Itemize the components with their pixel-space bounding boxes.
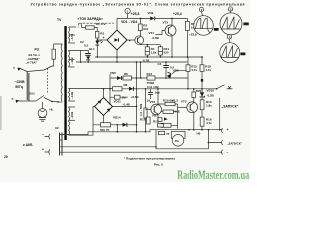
junction dot C4 top — [165, 61, 167, 63]
svg-text:Н6: Н6 — [197, 132, 201, 136]
transistor VT3 emitter — [168, 33, 172, 58]
lamp HL — [38, 109, 47, 118]
svg-text:VT3: VT3 — [163, 21, 169, 25]
oscillogram 3 axis — [221, 28, 241, 30]
junction dot bus129 x202 — [201, 129, 203, 131]
capacitor C13 body — [101, 123, 111, 127]
svg-text:FU: FU — [35, 48, 40, 52]
junction dot start — [208, 142, 210, 144]
bottom bus left y137.4 — [62, 130, 156, 135]
small box row c — [161, 123, 171, 127]
svg-text:R20: R20 — [196, 89, 202, 93]
svg-text:а: а — [13, 66, 15, 70]
junction dot y62 bridge — [116, 61, 118, 63]
terminal arrow mains upper — [18, 68, 22, 71]
bridge 2 diamond — [95, 98, 113, 116]
wire R16b bottom — [201, 126, 203, 130]
junction dot VT5 collector bus — [193, 88, 195, 90]
wire tap y43 — [69, 42, 76, 44]
resistor R10 body — [165, 102, 175, 105]
resistor R16 vertical body — [147, 117, 151, 124]
lamp HL stem — [42, 102, 44, 109]
junction dot rail x136 — [136, 124, 138, 126]
bridge VD1-VD4 internal diode — [114, 38, 118, 42]
wire between R19 R16 — [201, 110, 203, 117]
svg-text:−: − — [227, 151, 229, 155]
svg-text:~220В: ~220В — [15, 80, 26, 84]
transistor VT2 collector — [154, 89, 158, 108]
wire mains lower — [19, 100, 36, 102]
resistor R4 divider — [145, 51, 149, 53]
oscillogram 2 circle — [194, 16, 214, 36]
svg-text:4,7к: 4,7к — [191, 68, 197, 72]
diode VD below C2 — [86, 56, 90, 59]
svg-text:R17: R17 — [153, 120, 159, 124]
emitter rail y44.7 — [141, 45, 161, 47]
junction dot primary bottom 2 — [57, 101, 59, 103]
wire tap y50 to C2 loop — [69, 49, 81, 51]
shunt body — [144, 108, 147, 118]
plug X1 pin 1 — [26, 72, 28, 101]
dash-dot link vertical — [78, 23, 80, 27]
resistor R4 body — [145, 47, 149, 55]
junction dot y137 x145 — [145, 131, 147, 133]
junction dot y78 x136 — [136, 77, 138, 79]
wire R12 row — [161, 111, 178, 113]
svg-text:0,5: 0,5 — [84, 44, 89, 48]
diode VD12 on rail — [123, 123, 127, 127]
small box above meter bus — [158, 124, 164, 127]
junction dot rail x117 — [117, 124, 119, 126]
svg-text:* Подключают при регулирован: * Подключают при регулировании — [124, 157, 175, 161]
oscillogram 4 time label — [240, 53, 245, 56]
diode VD7 bar — [132, 87, 134, 91]
resistor R1 wiper arrow — [81, 23, 83, 27]
svg-text:VD9: VD9 — [148, 11, 154, 15]
LED HL1 — [95, 41, 99, 45]
svg-text:50Гц: 50Гц — [15, 85, 24, 89]
junction dot y137 x117 — [117, 131, 119, 133]
LED HL1 arrows — [100, 40, 103, 44]
junction dot rail R4 — [147, 44, 149, 46]
bus y57 — [95, 56, 203, 58]
switch SA1.1 — [44, 59, 54, 70]
svg-text:4,7к: 4,7к — [205, 68, 211, 72]
svg-text:-0,5В: -0,5В — [207, 94, 215, 98]
resistor R21 body — [158, 47, 162, 55]
junction dot VT2 collector bus — [157, 88, 159, 90]
terminal arrow out plus — [222, 128, 223, 133]
junction dot y137 x136 — [136, 131, 138, 133]
connector X2 rungs — [60, 135, 63, 153]
bottom bus lower y151.5 — [62, 151, 222, 153]
wire mains upper — [21, 69, 27, 72]
resistor R16b body — [200, 117, 204, 126]
svg-text:1,8к: 1,8к — [206, 104, 212, 108]
junction dot x140 y62 — [140, 61, 142, 63]
junction dot LED column — [97, 39, 99, 41]
column x202 wire — [201, 57, 203, 100]
shunt wire x145.5 — [145, 89, 147, 132]
resistor R1 body — [86, 26, 95, 29]
wire x140 y62-78 — [140, 62, 142, 78]
svg-text:R16: R16 — [140, 118, 146, 122]
svg-text:VD5: VD5 — [110, 71, 116, 75]
junction dot bus89 x202 — [201, 88, 203, 90]
resistor R20 lead — [193, 89, 195, 92]
oscillogram 4 marker — [227, 35, 231, 39]
resistor R3 body — [138, 24, 142, 30]
junction dot bus129 x208 — [208, 129, 210, 131]
svg-text:„ЗАПУСК": „ЗАПУСК" — [222, 105, 239, 109]
diode small row — [164, 117, 168, 120]
oscillogram 4 stem — [229, 39, 231, 43]
svg-text:Устройство зарядно-пусковое: Устройство зарядно-пусковое „Электроника… — [31, 3, 245, 7]
junction dot bus89 x188 — [187, 88, 189, 90]
junction dot x202 y57 — [201, 56, 203, 58]
resistor R2 body — [96, 31, 99, 38]
wire bridge1 bottom to buses — [116, 50, 118, 62]
svg-text:+25,4: +25,4 — [173, 12, 182, 16]
junction dot x136 y106 — [136, 106, 138, 108]
wire tap y135 to rail — [69, 125, 94, 135]
transistor VT5 emitter — [190, 109, 194, 129]
svg-text:+: + — [227, 128, 229, 132]
svg-text:-0,6В: -0,6В — [152, 36, 160, 40]
junction dot middle bus — [155, 146, 157, 148]
resistor R13 body — [147, 76, 155, 80]
resistor R8 on bus89 — [113, 87, 123, 91]
row y97 cap — [115, 95, 121, 99]
junction dot y57 VT3 — [171, 56, 173, 58]
svg-text:VD1 - VD4: VD1 - VD4 — [121, 20, 137, 24]
wire C2 chain to bus — [87, 55, 89, 62]
bus y78 — [110, 77, 188, 79]
C2 loop top wire — [81, 50, 89, 62]
bridge VD1-VD4 diamond — [107, 30, 127, 50]
switch link dashed — [47, 69, 49, 94]
svg-text:+: + — [103, 36, 105, 40]
svg-text:«ТОК ЗАРЯДА»: «ТОК ЗАРЯДА» — [78, 17, 104, 21]
junction dot bus89 x136 — [136, 88, 138, 90]
wire tap y120 — [69, 119, 76, 121]
bridge VD1-VD4 internal diode bar — [117, 38, 119, 42]
junction dot bus R3 — [140, 18, 142, 20]
bus y129.7 — [156, 129, 223, 131]
wire R21 bottom — [159, 55, 161, 57]
plug X1 pin 2 — [28, 73, 30, 101]
junction dot x136 y62 — [136, 61, 138, 63]
resistor R15 body — [186, 65, 190, 72]
svg-text:1,0 - 50В: 1,0 - 50В — [139, 103, 143, 116]
svg-text:б: б — [12, 97, 14, 101]
svg-text:220: 220 — [164, 51, 169, 55]
wire tap y88 to bus89 — [69, 88, 113, 90]
svg-text:-0,4В: -0,4В — [123, 102, 131, 106]
wire VT2 base — [146, 108, 151, 110]
capacitor C2 — [85, 54, 91, 56]
transformer secondary winding upper B — [69, 51, 70, 68]
bus y62 — [76, 61, 187, 63]
transistor VT1 — [135, 36, 144, 45]
wire row c links — [158, 124, 178, 126]
svg-text:+1,2: +1,2 — [172, 99, 178, 103]
svg-text:−: − — [42, 132, 44, 136]
wire bridge2 left — [93, 107, 95, 125]
start terminal wire — [208, 140, 222, 145]
svg-text:R8: R8 — [124, 83, 128, 87]
terminal arrow out minus — [222, 150, 223, 155]
oscillogram 4 circle — [220, 43, 240, 63]
oscillogram 4 axis — [221, 56, 239, 58]
wire tap y107 — [69, 106, 76, 108]
wire tap y59 — [69, 58, 75, 60]
capacitor C4 stem — [165, 62, 167, 78]
svg-text:1М: 1М — [122, 96, 127, 100]
svg-text:к АКБ: к АКБ — [23, 143, 33, 147]
svg-text:1,8к: 1,8к — [151, 51, 157, 55]
svg-text:4,7к: 4,7к — [206, 121, 212, 125]
transistor VT2 base bar — [153, 106, 155, 112]
svg-text:+25,8: +25,8 — [131, 12, 140, 16]
svg-text:+: + — [42, 148, 44, 152]
vertical x136 — [136, 62, 138, 132]
small box row b — [158, 118, 162, 122]
resistor R11 body — [158, 131, 164, 134]
junction dot y57 R21 — [160, 56, 162, 58]
node 1 circled — [125, 8, 130, 13]
svg-text:VD11: VD11 — [114, 100, 122, 104]
bridge 2 diode tl — [98, 100, 102, 104]
zener VD10 — [200, 92, 204, 97]
junction dot bus VT3 — [171, 18, 173, 20]
diode VD6 bar — [167, 72, 171, 74]
svg-text:VD7: VD7 — [152, 114, 158, 118]
svg-text:SA1: SA1 — [29, 92, 35, 96]
wire VD6 up — [172, 70, 187, 73]
wire x110 vertical — [109, 74, 111, 105]
wire switch2 to primary bottom — [44, 98, 62, 103]
diode VD9 on bus — [150, 16, 154, 20]
LED HL1 bar — [95, 44, 99, 46]
svg-text:~17В: ~17В — [70, 33, 74, 41]
resistor R12 body — [163, 110, 174, 113]
terminal arrow mains lower — [16, 100, 20, 103]
transistor VT2 — [151, 104, 162, 115]
diode bar y78 — [120, 76, 122, 80]
wire bridge1 top — [116, 18, 118, 30]
top bus wire — [117, 17, 187, 19]
svg-text:HL: HL — [50, 108, 54, 112]
transistor VT5 base bar — [189, 104, 191, 110]
svg-text:~20В: ~20В — [70, 111, 74, 119]
svg-text:~11В: ~11В — [70, 57, 74, 65]
fuse FU lead top — [54, 44, 63, 49]
oscillogram 3 stem — [230, 11, 232, 13]
transistor VT5 collector — [190, 98, 194, 106]
junction dot y62 C2 — [87, 61, 89, 63]
svg-text:R6: R6 — [124, 72, 128, 76]
junction dot bus89 x110 — [109, 88, 111, 90]
junction dot bus129 x193.8 — [193, 129, 195, 131]
node 1 stem — [127, 14, 129, 19]
oscillogram 2 waveform — [196, 18, 211, 33]
capacitor C4 — [163, 66, 168, 68]
oscillogram 2 stem — [202, 12, 203, 16]
oscillogram 2 axis — [195, 28, 213, 30]
junction dot y57 R5 — [187, 56, 189, 58]
svg-text:R2: R2 — [100, 32, 104, 36]
svg-text:500 75: 500 75 — [100, 128, 110, 132]
scan streak left edge — [0, 96, 2, 130]
resistor R18 body — [200, 65, 204, 72]
switch SA1.2 — [36, 96, 44, 102]
svg-text:HL1: HL1 — [89, 47, 95, 51]
wire R5 bottom down — [186, 30, 188, 57]
wire tap y67 — [69, 66, 75, 68]
LED column wires — [96, 38, 98, 57]
wire R10 row — [158, 103, 178, 105]
junction dot y57 led — [97, 56, 99, 58]
oscillogram 2 marker — [199, 7, 203, 11]
wire x117 down — [116, 125, 118, 132]
wire pin1 to switch1 — [27, 70, 44, 72]
wire tap y35 — [69, 34, 76, 36]
lamp HL base — [39, 118, 46, 122]
junction dot y62 left — [80, 61, 82, 63]
diode VD9 bar — [154, 16, 156, 20]
wire bridge1 right to VT1 — [127, 39, 135, 41]
wire bridge2 right — [113, 106, 137, 108]
svg-text:~14В: ~14В — [70, 91, 74, 99]
svg-text:-0,7В: -0,7В — [142, 58, 150, 62]
junction dot primary bottom — [51, 101, 53, 103]
diode VD on y78 — [117, 76, 121, 80]
wire bridge2 top — [103, 89, 105, 98]
bridge 2 diode br — [107, 108, 111, 112]
wire zapusk column — [219, 98, 221, 130]
wire tap y101 — [69, 100, 76, 102]
diode VD12 bar — [126, 123, 128, 127]
svg-text:+23,8: +23,8 — [189, 33, 197, 37]
junction dot y78 C4 — [165, 77, 167, 79]
transistor VT1 collector — [138, 30, 141, 38]
fuse FU body — [52, 49, 55, 59]
dash-dot link horizontal — [79, 22, 114, 24]
oscillogram 3 waveform — [222, 17, 240, 29]
capacitor C11 stem — [150, 89, 152, 99]
junction dot bus129 x189 — [188, 129, 190, 131]
diode VD bar — [86, 59, 90, 61]
svg-text:75: 75 — [166, 132, 170, 136]
junction dot zapusk bottom — [219, 129, 221, 131]
meter loop — [156, 130, 208, 149]
battery terminal arrow lower — [45, 149, 51, 154]
transformer secondary winding upper A — [69, 27, 70, 43]
resistor R6 body — [123, 76, 132, 80]
capacitor C11 — [148, 92, 153, 94]
junction dot bridge2 top — [103, 88, 105, 90]
svg-text:VT1: VT1 — [149, 31, 155, 35]
svg-text:RadioMaster.com.ua: RadioMaster.com.ua — [177, 167, 249, 182]
wire x177.5 — [177, 104, 179, 129]
svg-text:20: 20 — [4, 155, 8, 159]
svg-text:R13: R13 — [147, 72, 153, 76]
resistor R5 body — [185, 21, 189, 30]
junction dot bus89 x145 — [145, 88, 147, 90]
svg-text:„А-76А": „А-76А" — [26, 60, 38, 64]
meter PA circle — [172, 135, 184, 147]
transistor VT3 — [165, 25, 176, 36]
middle bus y146.8 — [62, 146, 156, 148]
svg-text:+: + — [129, 39, 131, 43]
resistor R1 leads — [82, 28, 98, 32]
meter rect — [171, 131, 185, 138]
wire bus corner to R5 — [186, 18, 188, 21]
switch SA2 — [217, 85, 233, 89]
oscillogram 4 waveform — [221, 46, 237, 58]
lamp HL filament — [40, 110, 45, 111]
zener VD10 bar — [200, 96, 205, 97]
svg-text:VD10: VD10 — [207, 89, 215, 93]
svg-text:„ЗАПУСК": „ЗАПУСК" — [227, 142, 243, 146]
transistor VT3 collector — [168, 18, 172, 28]
transistor VT1 base bar — [137, 38, 139, 43]
resistor R19 body — [200, 100, 204, 110]
transformer TV core — [64, 26, 66, 140]
svg-text:1мк: 1мк — [155, 91, 161, 95]
svg-text:Х2: Х2 — [55, 126, 59, 130]
resistor R20 body — [192, 92, 196, 98]
wire row y97 — [110, 96, 128, 98]
svg-text:Рис. 5: Рис. 5 — [154, 163, 163, 167]
svg-text:ТV: ТV — [57, 18, 62, 22]
transistor VT1 emitter — [138, 42, 141, 45]
transistor VT5 — [187, 102, 198, 113]
wire VT3 base left — [156, 31, 166, 35]
switch SA2 x mark — [228, 86, 231, 89]
svg-text:R1 47к: R1 47к — [96, 22, 106, 26]
resistor R21 divider — [158, 51, 162, 53]
svg-text:VD14: VD14 — [113, 116, 121, 120]
junction dot SA2 — [216, 88, 218, 90]
oscillogram 3 time label — [243, 23, 248, 26]
oscillogram 3 circle — [220, 13, 242, 35]
junction dot y78 x140 — [140, 77, 142, 79]
wire tap y27 — [69, 26, 77, 28]
transformer secondary winding lower B — [69, 107, 70, 135]
junction dot y57 bridge — [116, 56, 118, 58]
oscillogram 2 time label — [214, 28, 219, 31]
diode VD7 on bus89 — [129, 87, 133, 91]
battery terminal arrow upper — [45, 134, 51, 139]
wire R4 bottom — [146, 55, 148, 57]
transformer secondary winding lower A — [69, 88, 70, 101]
oscillogram 3 marker — [228, 7, 232, 11]
diode VD6 diagonal — [167, 72, 173, 78]
svg-text:С4: С4 — [158, 62, 162, 66]
transformer primary winding — [61, 44, 62, 102]
svg-text:+0,6В: +0,6В — [131, 95, 140, 99]
wire bridge1 left to LED column — [97, 39, 107, 41]
resistor R3 lead top — [140, 18, 142, 24]
bus y89 center-right — [113, 88, 217, 90]
connector X2 block — [60, 133, 63, 156]
transistor VT3 base bar — [167, 28, 169, 34]
rail y124.8 — [93, 124, 137, 126]
svg-text:VT5: VT5 — [181, 100, 187, 104]
column x188 wire — [187, 57, 189, 89]
